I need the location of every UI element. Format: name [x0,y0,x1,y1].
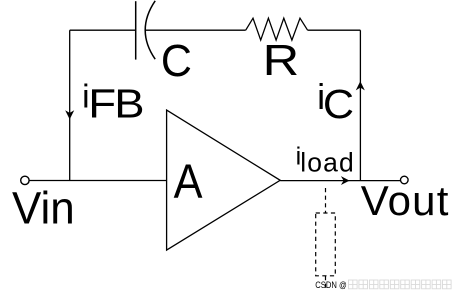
svg-text:C: C [323,81,354,127]
watermark CJK glyph blocks [349,280,452,289]
svg-text:Vout: Vout [361,177,450,224]
op-amp A triangle [167,110,281,250]
wire: input horizontal from Vin terminal to op-amp [29,180,166,182]
svg-text:C: C [161,36,192,86]
wire: top-left horizontal from corner to capacitor left plate [70,29,136,31]
wire: dashed stub below load [325,276,327,288]
wire: right vertical from top corner down to output node [359,30,361,181]
output terminal circle Vout [401,176,409,184]
svg-text:F: F [88,82,116,127]
arrowhead up for iC current [357,82,365,90]
wire: top horizontal from capacitor to resistor [146,29,246,31]
wire: dashed stub from output wire down to load [325,188,327,213]
capacitor C curved plate [145,1,155,59]
svg-text:load: load [300,148,355,178]
arrowhead down for iFB current [66,111,74,119]
load outline dashed rectangle [316,213,336,276]
wire: output horizontal from op-amp apex to Vout terminal [280,180,400,182]
arrowhead right for iload current [342,177,349,184]
input terminal circle Vin [21,176,29,184]
svg-text:R: R [263,36,300,85]
resistor R zigzag [246,18,308,40]
capacitor C left plate [135,1,137,59]
svg-text:Vin: Vin [12,184,75,234]
svg-text:CSDN @: CSDN @ [315,280,347,290]
wire: left vertical from top corner down to input wire [69,30,71,180]
svg-text:B: B [114,82,144,127]
svg-text:A: A [174,154,203,208]
wire: top horizontal from resistor to right corner [308,29,361,31]
